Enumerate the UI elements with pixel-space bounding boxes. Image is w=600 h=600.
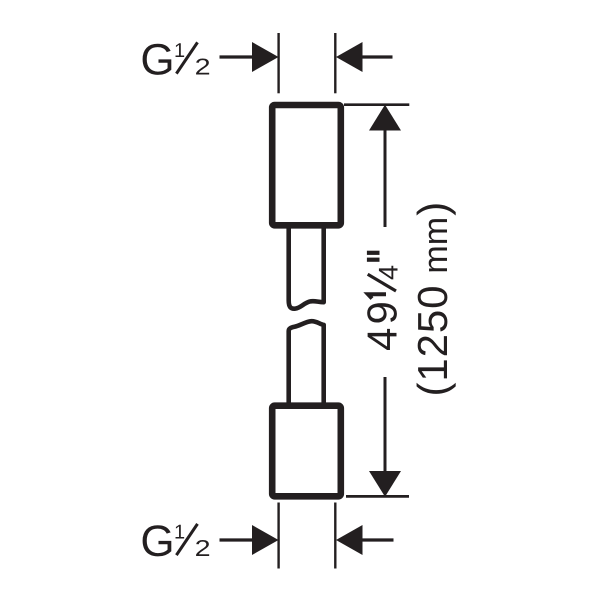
svg-text:2: 2 (195, 54, 211, 80)
svg-text:4: 4 (373, 265, 403, 280)
svg-text:1: 1 (174, 40, 185, 62)
svg-text:G: G (140, 517, 174, 566)
svg-text:2: 2 (195, 535, 211, 561)
svg-text:G: G (140, 36, 174, 85)
svg-text:49: 49 (359, 298, 406, 351)
svg-text:mm: mm (417, 217, 455, 274)
svg-text:(1250: (1250 (409, 285, 456, 397)
svg-text:1: 1 (174, 522, 185, 544)
svg-text:): ) (409, 202, 456, 216)
